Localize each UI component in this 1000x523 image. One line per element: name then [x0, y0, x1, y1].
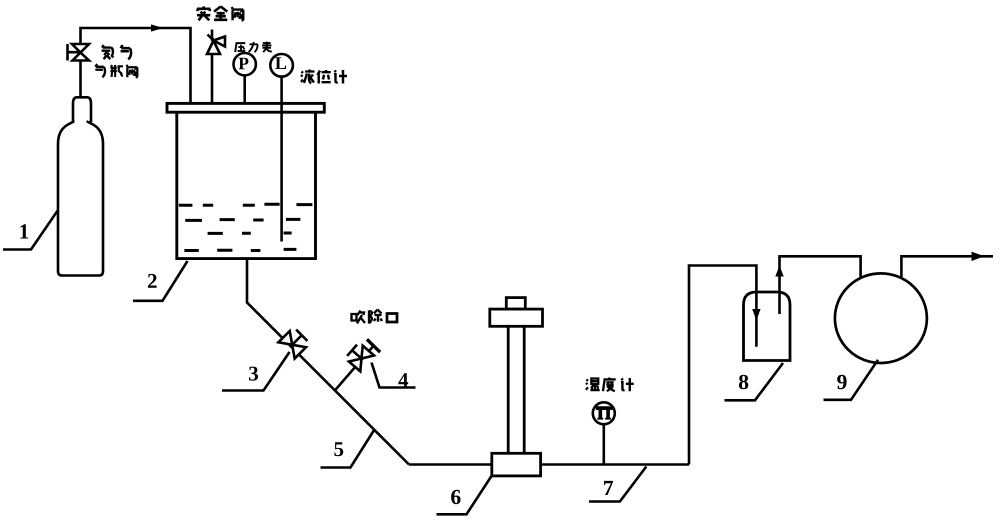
hand valve column 6 — [490, 298, 543, 476]
wire: riser and inlet line to vessel 8 — [689, 266, 756, 465]
tank 2 body — [177, 112, 316, 258]
leader line for 4 — [372, 363, 416, 388]
leader line for 1 — [3, 211, 58, 250]
leader line for 7 — [589, 467, 646, 502]
label: 安全阀 (safety valve) — [197, 6, 243, 20]
gas cylinder 1 — [58, 97, 103, 275]
wire: tank outlet downpipe and diagonal pipe 5 — [247, 259, 409, 465]
label: 液位计 (level gauge) — [301, 70, 347, 84]
reference numeral 7 — [604, 481, 613, 495]
level gauge L with dip probe — [270, 54, 293, 242]
valve 3 on diagonal pipe — [278, 327, 309, 358]
outlet flow arrow — [972, 252, 985, 261]
vessel 8 — [744, 292, 791, 361]
label: 氮气 (nitrogen) — [102, 45, 132, 59]
down flow arrow in dip tube — [752, 309, 760, 321]
label: 吹除口 (blow-off port) — [352, 310, 398, 324]
reference numeral 3 — [249, 367, 258, 381]
wire: outlet line from circle 9 — [901, 256, 993, 277]
reference numeral 5 — [334, 442, 343, 456]
wire: blow-off branch pipe — [335, 346, 374, 391]
blow-off port end cap — [367, 339, 380, 352]
flow arrow on nitrogen line — [151, 24, 164, 31]
reference numeral 8 — [739, 375, 748, 390]
reference numeral 6 — [451, 490, 460, 504]
leader line for 8 — [725, 363, 784, 400]
reference numeral 4 — [398, 373, 408, 387]
reference numeral 1 — [20, 224, 28, 238]
wire: vessel 8 outlet tube up — [780, 256, 861, 314]
reference numeral 9 — [837, 375, 846, 389]
label: 温度计 (thermometer) — [586, 377, 634, 391]
tank lid — [167, 103, 324, 112]
safety valve symbol on lid — [207, 30, 225, 104]
label: 压力表 (pressure gauge) — [235, 42, 272, 53]
wire: main horizontal pipe 7 — [409, 463, 689, 466]
leader line for 6 — [437, 476, 492, 514]
leader line for 2 — [133, 261, 188, 301]
label: 气瓶阀 (gas bottle valve) — [95, 64, 137, 77]
reference numeral 2 — [148, 274, 157, 288]
pump/tank circle 9 — [835, 273, 927, 363]
pressure gauge P — [234, 53, 256, 103]
leader line for 5 — [321, 431, 374, 468]
liquid level dashes in tank — [179, 204, 313, 250]
valve 4 (blow-off valve) — [345, 342, 374, 371]
valve: gas bottle valve (hand valve on cylinder) — [68, 44, 90, 61]
leader line for 9 — [824, 360, 879, 400]
thermometer TT — [593, 402, 615, 464]
leader line for 3 — [222, 352, 290, 391]
wire: valve stem to cylinder neck — [79, 61, 82, 99]
up flow arrow in outlet tube — [775, 266, 783, 277]
wire: nitrogen supply line from valve to tank lid — [81, 28, 191, 104]
